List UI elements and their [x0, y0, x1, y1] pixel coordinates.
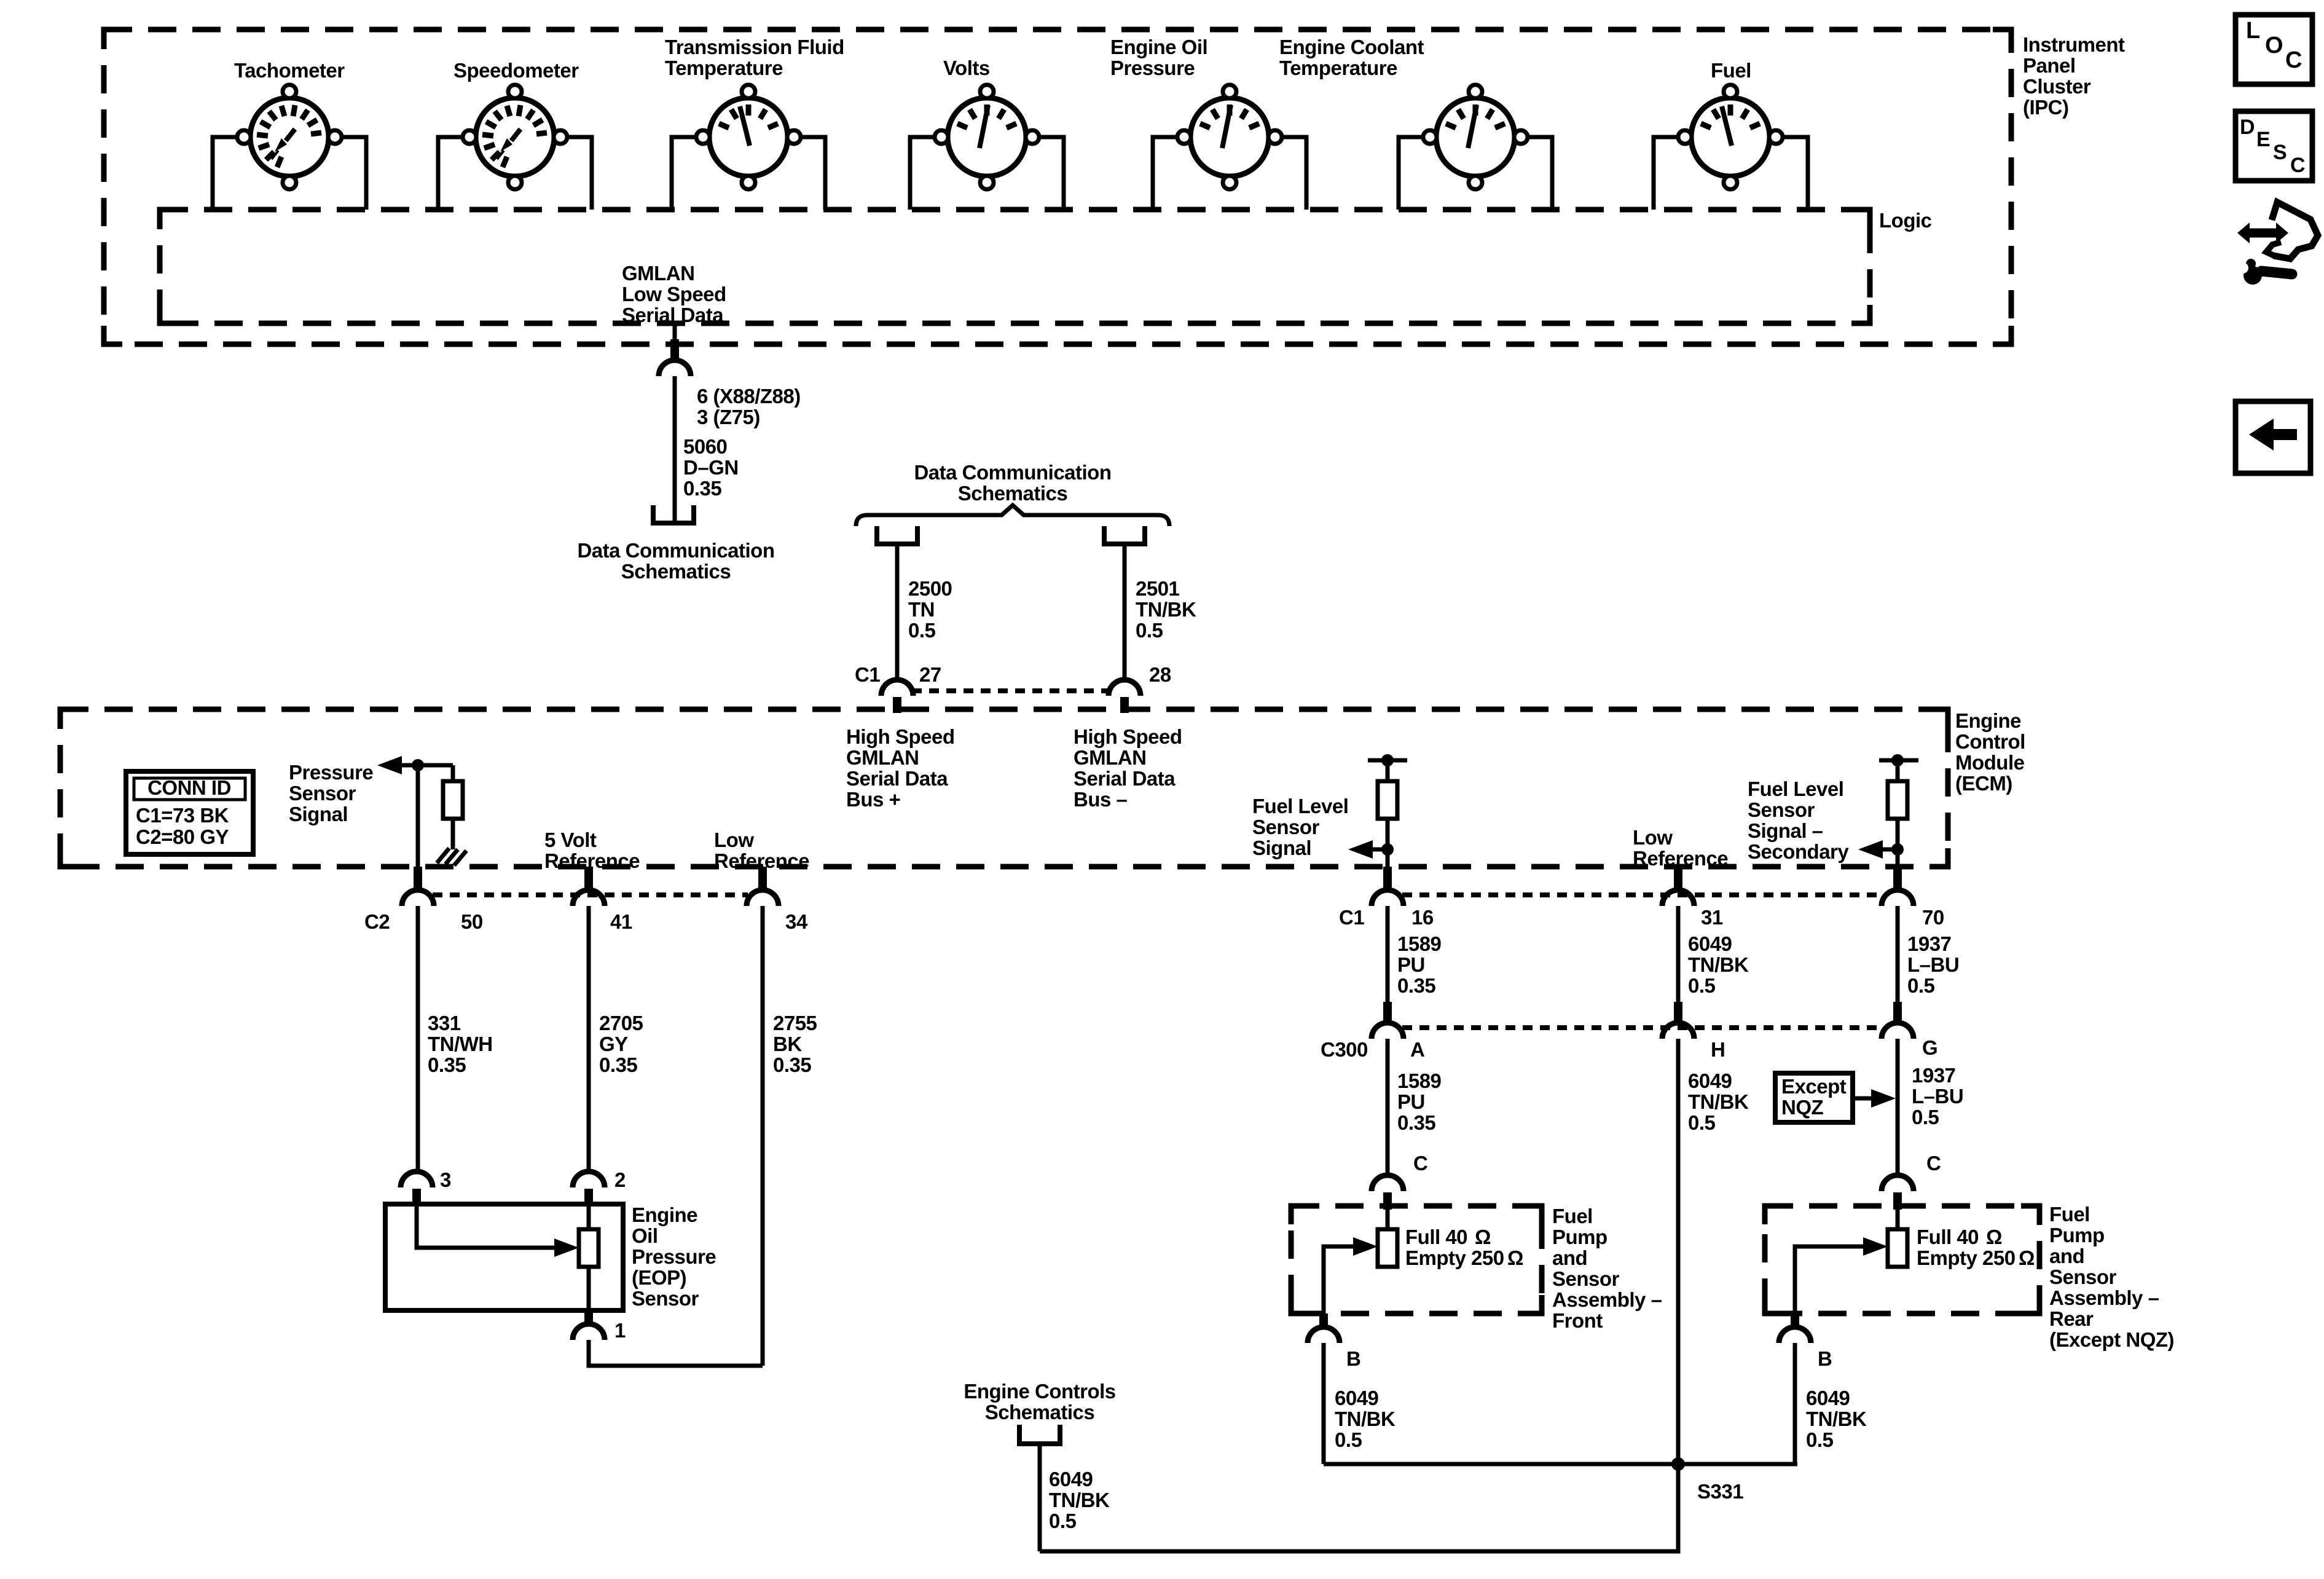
svg-text:Low Speed: Low Speed — [622, 283, 726, 305]
wire 1589 PU (upper) — [1386, 906, 1390, 1004]
DESC box — [2236, 111, 2312, 181]
wire EOP pin1 to low ref — [589, 1340, 763, 1366]
svg-text:0.35: 0.35 — [1397, 1111, 1435, 1134]
EOP wiper wire — [417, 1204, 556, 1248]
svg-text:Empty 250: Empty 250 — [1917, 1246, 2016, 1269]
svg-text:2500: 2500 — [908, 577, 952, 600]
svg-text:(Except NQZ): (Except NQZ) — [2049, 1328, 2174, 1351]
svg-text:Engine: Engine — [1955, 709, 2021, 732]
connector EOP pin 3 stub — [412, 1189, 421, 1207]
label 6049 TN/BK 0.5 (upper) — [1688, 932, 1749, 997]
svg-text:2755: 2755 — [773, 1012, 817, 1034]
wire 2705 GY — [587, 906, 591, 1173]
label 5060 D-GN 0.35 — [683, 435, 739, 500]
connector C1 pin 16 arc — [1372, 890, 1403, 906]
wire S331 down-left run — [1040, 1464, 1678, 1551]
label low reference (right) — [1633, 826, 1728, 870]
connector C1 pin 28 stub — [1120, 697, 1129, 713]
connector rear B stub — [1791, 1313, 1799, 1328]
wire Fuel left pin — [1654, 137, 1678, 210]
label 1937 L-BU 0.5 (upper) — [1907, 932, 1959, 997]
wire Volts right pin — [1039, 137, 1064, 210]
arrow pressure sensor signal — [377, 756, 453, 774]
off-page bracket wire 2500 — [877, 526, 917, 544]
svg-text:L–BU: L–BU — [1907, 953, 1959, 976]
svg-text:Secondary: Secondary — [1748, 840, 1849, 863]
svg-text:GMLAN: GMLAN — [1074, 746, 1146, 769]
svg-text:Engine Oil: Engine Oil — [1110, 36, 1207, 58]
svg-text:D–GN: D–GN — [683, 456, 739, 479]
svg-text:331: 331 — [428, 1012, 461, 1034]
svg-text:S: S — [2273, 141, 2287, 164]
svg-text:Signal: Signal — [289, 803, 348, 825]
svg-text:31: 31 — [1701, 906, 1723, 929]
svg-text:Bus –: Bus – — [1074, 788, 1128, 811]
svg-text:Sensor: Sensor — [632, 1287, 699, 1310]
svg-text:GY: GY — [599, 1033, 628, 1055]
wire 1937 L-BU (upper) — [1896, 906, 1900, 1004]
svg-text:C1: C1 — [1339, 906, 1364, 929]
wire engine controls 6049 — [1038, 1444, 1042, 1551]
junction dot fuel level signal secondary — [1891, 843, 1904, 856]
svg-text:3 (Z75): 3 (Z75) — [697, 406, 760, 428]
wire Engine Oil left pin — [1153, 137, 1177, 210]
svg-text:and: and — [1552, 1246, 1587, 1269]
svg-text:Fuel Level: Fuel Level — [1252, 795, 1348, 817]
label pin 3 — [440, 1168, 451, 1191]
label pin 34 — [785, 910, 808, 933]
svg-text:Reference: Reference — [1633, 847, 1728, 870]
svg-text:Front: Front — [1552, 1309, 1603, 1332]
label front C — [1413, 1152, 1427, 1175]
svg-text:TN: TN — [908, 598, 935, 621]
svg-text:Sensor: Sensor — [1748, 798, 1815, 821]
svg-text:Temperature: Temperature — [665, 57, 783, 79]
svg-text:0.5: 0.5 — [1688, 974, 1716, 997]
ECM supply bar (front fuel) — [1368, 758, 1407, 763]
label pin 70 — [1922, 906, 1944, 929]
label EOP sensor — [632, 1203, 716, 1310]
wire Engine Oil right pin — [1282, 137, 1306, 210]
connector C300 pin A stub — [1383, 1002, 1392, 1024]
svg-text:0.35: 0.35 — [683, 477, 721, 500]
svg-text:0.35: 0.35 — [428, 1053, 466, 1076]
svg-text:Low: Low — [1633, 826, 1673, 849]
label pin 2 — [614, 1168, 626, 1191]
wire Speedometer right pin — [567, 137, 592, 210]
connector IPC GMLAN pin stub — [670, 339, 679, 361]
svg-text:TN/BK: TN/BK — [1688, 953, 1749, 976]
svg-text:(EOP): (EOP) — [632, 1266, 686, 1289]
off-page bracket data communication — [653, 505, 694, 523]
svg-text:TN/BK: TN/BK — [1049, 1489, 1110, 1511]
svg-text:S331: S331 — [1697, 1480, 1743, 1503]
connector IPC GMLAN pin arc — [659, 360, 691, 376]
label 2500 TN 0.5 — [908, 577, 952, 642]
svg-text:GMLAN: GMLAN — [622, 262, 694, 285]
rear wiper wire — [1795, 1246, 1865, 1313]
label pin G — [1922, 1036, 1937, 1059]
wire rear 6049 TN/BK — [1793, 1343, 1797, 1464]
label pin H — [1711, 1038, 1725, 1061]
label 1589 PU 0.35 (lower) — [1397, 1069, 1442, 1134]
svg-text:0.5: 0.5 — [1688, 1111, 1716, 1134]
connector EOP pin 1 stub — [584, 1310, 593, 1325]
svg-text:Pressure: Pressure — [632, 1245, 716, 1268]
label pin 1 — [614, 1319, 626, 1342]
wire 5060 D-GN — [673, 376, 677, 522]
resistor fuel level pull-up (front) — [1378, 781, 1397, 819]
off-page bracket wire 2501 — [1104, 526, 1145, 544]
svg-text:C: C — [1413, 1152, 1427, 1175]
svg-text:Full 40: Full 40 — [1917, 1226, 1979, 1248]
svg-text:GMLAN: GMLAN — [846, 746, 919, 769]
label fuel level sensor signal - secondary — [1748, 778, 1849, 863]
connector EOP pin 2 arc — [573, 1171, 605, 1187]
svg-text:Data Communication: Data Communication — [914, 461, 1111, 484]
svg-text:Module: Module — [1955, 751, 2025, 774]
svg-text:Full 40: Full 40 — [1405, 1226, 1467, 1248]
label pressure sensor signal — [289, 761, 373, 825]
svg-text:Low: Low — [714, 829, 754, 851]
svg-text:E: E — [2256, 128, 2270, 151]
gauge Engine Coolant — [1423, 85, 1528, 189]
svg-text:0.5: 0.5 — [1335, 1428, 1362, 1451]
svg-text:Serial Data: Serial Data — [846, 767, 948, 790]
engine control module (ECM) dashed box — [60, 709, 1948, 867]
dotted connector row C1 — [1402, 892, 1883, 897]
CONN ID table — [126, 771, 253, 854]
svg-text:B: B — [1346, 1347, 1360, 1370]
svg-text:Signal: Signal — [1252, 837, 1311, 859]
connector C1 pin 16 stub — [1383, 867, 1392, 891]
svg-text:C300: C300 — [1321, 1038, 1368, 1061]
svg-text:Except: Except — [1781, 1075, 1847, 1098]
svg-text:70: 70 — [1922, 906, 1944, 929]
left arrow box — [2236, 401, 2310, 473]
wire 1937 L-BU (lower) — [1896, 1039, 1900, 1176]
ECM supply bar (rear fuel) — [1879, 758, 1918, 763]
svg-text:6049: 6049 — [1049, 1468, 1093, 1490]
connector EOP pin 1 arc — [573, 1324, 605, 1340]
svg-text:Pump: Pump — [2049, 1224, 2105, 1246]
svg-text:27: 27 — [919, 663, 941, 686]
wire resistor to ground — [451, 819, 455, 849]
label C1 27 28 — [855, 663, 1171, 686]
rear sender resistor — [1888, 1210, 1907, 1267]
svg-text:L: L — [2246, 18, 2260, 44]
svg-text:Volts: Volts — [943, 57, 990, 79]
label Engine Coolant — [1279, 36, 1424, 79]
svg-text:TN/BK: TN/BK — [1136, 598, 1196, 621]
svg-text:Schematics: Schematics — [958, 482, 1067, 505]
wire Fuel right pin — [1783, 137, 1808, 210]
label pin 16 — [1411, 906, 1434, 929]
wire rear pull-up down — [1896, 819, 1900, 868]
label pins 6/3 — [697, 385, 801, 428]
label front 6049 TN/BK 0.5 — [1335, 1387, 1396, 1451]
svg-text:C1=73 BK: C1=73 BK — [136, 804, 229, 827]
svg-text:0.5: 0.5 — [1912, 1106, 1939, 1128]
label C2 — [364, 910, 390, 933]
svg-text:High Speed: High Speed — [1074, 725, 1182, 748]
svg-text:41: 41 — [610, 910, 632, 933]
gauge Engine Oil — [1177, 85, 1282, 189]
connector C300 pin G arc — [1882, 1023, 1914, 1039]
label data communication schematics — [577, 539, 774, 583]
wire 331 TN/WH — [416, 906, 420, 1173]
svg-text:(ECM): (ECM) — [1955, 772, 2012, 795]
svg-text:5060: 5060 — [683, 435, 727, 458]
svg-text:Temperature: Temperature — [1279, 57, 1397, 79]
wire splice horizontal — [1324, 1462, 1797, 1467]
EOP wiper arrow — [554, 1238, 579, 1257]
label 2755 BK 0.35 — [773, 1012, 817, 1076]
connector C1 pin 31 arc — [1662, 890, 1694, 906]
LOC box — [2236, 15, 2312, 84]
svg-text:Instrument: Instrument — [2023, 33, 2125, 56]
arrow fuel level sensor signal secondary — [1858, 840, 1898, 859]
connector C2 pin 41 arc — [573, 890, 605, 906]
label pin 31 — [1701, 906, 1723, 929]
connector C1 pin 27 arc — [881, 680, 913, 696]
svg-text:NQZ: NQZ — [1781, 1096, 1824, 1119]
connector C2 pin 50 stub — [414, 867, 422, 891]
svg-text:C: C — [1926, 1152, 1941, 1175]
wire GMLAN low speed serial data — [673, 323, 677, 342]
label fuel pump assembly rear — [2049, 1203, 2174, 1351]
wire front pull-up down — [1386, 819, 1390, 868]
label C300 — [1321, 1038, 1368, 1061]
svg-text:50: 50 — [461, 910, 483, 933]
svg-text:6049: 6049 — [1806, 1387, 1850, 1409]
label 1937 L-BU 0.5 (lower) — [1912, 1064, 1963, 1128]
wire 6049 TN/BK (upper) — [1676, 906, 1681, 1004]
gauge Transmission Fluid — [696, 85, 801, 189]
label rear C — [1926, 1152, 1941, 1175]
label full/empty front — [1405, 1226, 1523, 1269]
svg-text:Bus +: Bus + — [846, 788, 900, 811]
label 1589 PU 0.35 (upper) — [1397, 932, 1442, 997]
svg-text:Fuel Level: Fuel Level — [1748, 778, 1843, 800]
svg-text:Engine Controls: Engine Controls — [964, 1380, 1115, 1403]
svg-text:5 Volt: 5 Volt — [544, 829, 597, 851]
connector C300 pin G stub — [1893, 1002, 1902, 1024]
svg-text:C2: C2 — [364, 910, 390, 933]
label pin 50 — [461, 910, 483, 933]
svg-text:2: 2 — [614, 1168, 626, 1191]
icon pointer hand with arrows and wrench — [2237, 202, 2318, 285]
svg-text:Ω: Ω — [2019, 1246, 2035, 1269]
svg-text:Rear: Rear — [2049, 1307, 2094, 1330]
svg-text:Oil: Oil — [632, 1224, 658, 1247]
ECM label — [1955, 709, 2025, 795]
svg-text:16: 16 — [1411, 906, 1434, 929]
label full/empty rear — [1917, 1226, 2035, 1269]
label high speed GMLAN bus + — [846, 725, 955, 811]
svg-text:Sensor: Sensor — [1252, 816, 1320, 838]
fuel pump and sensor assembly - front dashed box — [1291, 1206, 1542, 1313]
svg-text:Tachometer: Tachometer — [234, 59, 345, 82]
front wiper wire — [1324, 1246, 1355, 1313]
junction S331 dot — [1671, 1457, 1685, 1471]
svg-text:1: 1 — [614, 1319, 626, 1342]
gauge Tachometer — [237, 85, 342, 189]
connector EOP pin 2 stub — [584, 1189, 593, 1207]
svg-text:O: O — [2265, 33, 2283, 58]
wire Transmission Fluid left pin — [672, 137, 696, 210]
svg-text:Control: Control — [1955, 730, 2025, 753]
wire 2500 TN — [895, 544, 900, 681]
label fuel pump assembly front — [1552, 1205, 1662, 1332]
label 2501 TN/BK 0.5 — [1136, 577, 1196, 642]
svg-text:Sensor: Sensor — [289, 782, 356, 805]
svg-text:Pressure: Pressure — [289, 761, 373, 784]
svg-text:Data Communication: Data Communication — [577, 539, 774, 562]
label Transmission Fluid — [665, 36, 844, 79]
svg-text:0.5: 0.5 — [1049, 1510, 1077, 1532]
resistor pressure pull-up — [443, 781, 463, 819]
wire Transmission Fluid right pin — [801, 137, 825, 210]
svg-text:G: G — [1922, 1036, 1937, 1059]
svg-text:0.35: 0.35 — [599, 1053, 637, 1076]
svg-text:C2=80 GY: C2=80 GY — [136, 825, 229, 848]
svg-text:Pump: Pump — [1552, 1226, 1608, 1248]
svg-text:Fuel: Fuel — [2049, 1203, 2090, 1226]
junction dot fuel level signal — [1381, 843, 1394, 856]
svg-text:0.5: 0.5 — [908, 619, 936, 642]
svg-text:Speedometer: Speedometer — [453, 59, 579, 82]
svg-text:6049: 6049 — [1335, 1387, 1379, 1409]
wire to resistor — [451, 765, 455, 781]
label rear 6049 TN/BK 0.5 — [1806, 1387, 1867, 1451]
svg-text:3: 3 — [440, 1168, 451, 1191]
label fuel level sensor signal — [1252, 795, 1348, 859]
svg-text:L–BU: L–BU — [1912, 1085, 1963, 1108]
label S331 — [1697, 1480, 1743, 1503]
dotted connector row C2 — [433, 892, 748, 897]
svg-text:Logic: Logic — [1879, 209, 1932, 232]
except NQZ box — [1775, 1073, 1853, 1122]
connector rear C arc — [1882, 1175, 1914, 1191]
svg-text:High Speed: High Speed — [846, 725, 955, 748]
svg-text:H: H — [1711, 1038, 1725, 1061]
dotted connector row C300 — [1402, 1025, 1883, 1030]
front sender resistor — [1378, 1210, 1397, 1267]
junction dot rear supply — [1891, 754, 1904, 766]
svg-text:Serial Data: Serial Data — [622, 304, 724, 326]
label low reference (left) — [714, 829, 809, 872]
logic dashed box — [160, 210, 1870, 323]
connector C1 pin 70 stub — [1893, 867, 1902, 891]
wire 6049 TN/BK (lower) — [1676, 1039, 1681, 1464]
label Fuel — [1711, 59, 1751, 82]
connector C2 pin 41 stub — [584, 867, 593, 891]
svg-text:Sensor: Sensor — [1552, 1267, 1620, 1290]
svg-text:Engine Coolant: Engine Coolant — [1279, 36, 1424, 58]
label Tachometer — [234, 59, 345, 82]
svg-text:28: 28 — [1149, 663, 1171, 686]
svg-text:6049: 6049 — [1688, 1069, 1732, 1092]
connector C300 pin A arc — [1372, 1023, 1403, 1039]
svg-text:C: C — [2285, 47, 2302, 73]
connector C1 pin 28 arc — [1109, 680, 1140, 696]
svg-text:Engine: Engine — [632, 1203, 697, 1226]
connector C1 pin 27 stub — [893, 697, 901, 713]
label 331 TN/WH 0.35 — [428, 1012, 493, 1076]
wire Engine Coolant left pin — [1399, 137, 1423, 210]
arrow fuel level sensor signal — [1348, 840, 1388, 859]
svg-text:Panel: Panel — [2023, 54, 2076, 77]
label 6049 TN/BK 0.5 (lower) — [1688, 1069, 1749, 1134]
resistor fuel level pull-up (rear) — [1888, 781, 1907, 819]
svg-text:1589: 1589 — [1397, 1069, 1442, 1092]
wire pressure signal down — [416, 765, 420, 868]
logic label — [1879, 209, 1932, 232]
connector C300 pin H arc — [1662, 1023, 1694, 1039]
wire Volts left pin — [910, 137, 935, 210]
svg-text:C1: C1 — [855, 663, 880, 686]
svg-text:0.35: 0.35 — [773, 1053, 811, 1076]
label data communication schematics (center) — [914, 461, 1111, 505]
wire front 6049 TN/BK — [1322, 1343, 1326, 1464]
svg-text:B: B — [1818, 1347, 1832, 1370]
rear wiper arrow — [1863, 1237, 1888, 1256]
svg-text:Ω: Ω — [1986, 1226, 2002, 1248]
svg-text:PU: PU — [1397, 953, 1425, 976]
svg-text:(IPC): (IPC) — [2023, 96, 2069, 119]
svg-text:Schematics: Schematics — [621, 560, 731, 583]
connector front C arc — [1372, 1175, 1403, 1191]
brace data communication — [856, 505, 1169, 526]
svg-text:Transmission Fluid: Transmission Fluid — [665, 36, 844, 58]
gauge Volts — [935, 85, 1039, 189]
label pin 41 — [610, 910, 632, 933]
svg-text:Cluster: Cluster — [2023, 75, 2091, 98]
svg-text:TN/BK: TN/BK — [1688, 1090, 1749, 1113]
fuel pump and sensor assembly - rear dashed box — [1765, 1206, 2039, 1313]
connector C2 pin 34 stub — [758, 867, 767, 891]
svg-text:Assembly –: Assembly – — [1552, 1288, 1662, 1311]
label engine controls 6049 TN/BK 0.5 — [1049, 1468, 1110, 1532]
svg-text:D: D — [2240, 116, 2255, 139]
gauge Speedometer — [463, 85, 567, 189]
svg-text:Sensor: Sensor — [2049, 1266, 2117, 1288]
svg-text:Fuel: Fuel — [1552, 1205, 1593, 1227]
label C1 (bottom) — [1339, 906, 1364, 929]
svg-text:0.5: 0.5 — [1907, 974, 1935, 997]
off-page bracket engine controls — [1019, 1425, 1060, 1444]
svg-text:1589: 1589 — [1397, 932, 1442, 955]
label pin A — [1410, 1038, 1424, 1061]
label front B — [1346, 1347, 1360, 1370]
connector EOP pin 3 arc — [401, 1171, 433, 1187]
connector C1 pin 31 stub — [1674, 867, 1682, 891]
label high speed GMLAN bus - — [1074, 725, 1182, 811]
svg-text:6 (X88/Z88): 6 (X88/Z88) — [697, 385, 801, 408]
dotted line pins 27-28 — [912, 688, 1110, 693]
svg-text:BK: BK — [773, 1033, 802, 1055]
svg-text:6049: 6049 — [1688, 932, 1732, 955]
svg-text:Schematics: Schematics — [985, 1401, 1094, 1423]
connector rear B arc — [1779, 1327, 1811, 1343]
svg-text:Signal –: Signal – — [1748, 819, 1823, 842]
svg-text:Fuel: Fuel — [1711, 59, 1751, 82]
svg-text:2501: 2501 — [1136, 577, 1180, 600]
connector C300 pin H stub — [1674, 1002, 1682, 1024]
label engine controls schematics — [964, 1380, 1115, 1423]
junction dot front supply — [1381, 754, 1394, 766]
